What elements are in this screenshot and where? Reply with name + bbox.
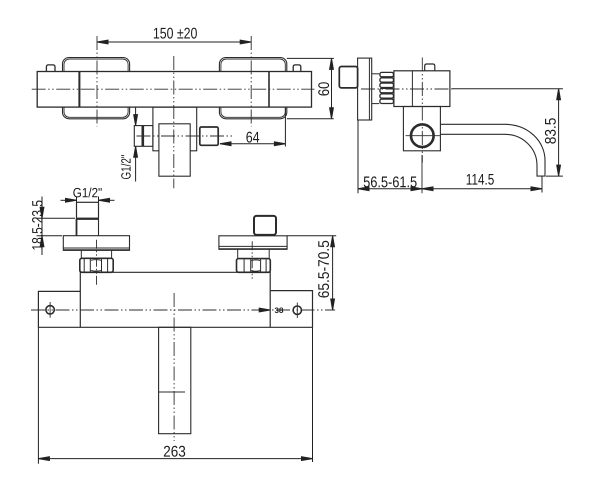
dimension G1/2 top view — [61, 197, 115, 203]
knurled adapter — [380, 72, 394, 76]
dimension 114.5 — [422, 177, 542, 193]
dimension 56.5-61.5 — [358, 120, 422, 193]
left nipple thread boundary — [77, 218, 99, 220]
left flange — [63, 236, 129, 251]
right flange — [219, 236, 287, 249]
dimension 65.5-70.5 — [287, 236, 336, 310]
spout block — [403, 107, 440, 151]
right handle vertical centerline — [250, 36, 252, 127]
centerlines side view — [361, 58, 452, 163]
label G1/2 outlet — [121, 155, 131, 179]
screw hole left — [46, 306, 54, 314]
leader 38 — [259, 308, 270, 312]
left nipple lower — [76, 219, 78, 236]
dimension 18.5-23.5 — [37, 197, 76, 256]
dimension 64 — [220, 108, 285, 147]
right outlet block — [200, 127, 218, 145]
body horizontal centerline — [361, 88, 452, 90]
label 65.5-70.5 — [318, 241, 329, 298]
G1/2 leader front view — [134, 107, 138, 181]
handle right — [219, 58, 286, 119]
body top tab — [425, 64, 435, 71]
spout outline — [440, 124, 545, 176]
right connection centerline — [251, 241, 253, 278]
wall union square — [339, 67, 357, 88]
stub pipe — [372, 73, 380, 75]
spout front block — [159, 124, 190, 176]
right nipple — [254, 216, 276, 235]
right chamfer — [237, 249, 239, 258]
label 83.5 — [545, 118, 556, 143]
label 56.5-61.5 — [364, 176, 417, 187]
dimension 83.5 — [452, 89, 563, 176]
central vertical centerline — [173, 56, 175, 188]
bar horizontal centerline — [32, 88, 315, 90]
mounting plate — [38, 291, 312, 328]
left connection centerline — [96, 240, 98, 285]
plate horizontal centerline — [31, 309, 335, 311]
centerlines top view — [31, 240, 335, 441]
centerlines front view — [32, 36, 315, 188]
label 60 — [318, 82, 329, 95]
label 150 ±20 — [154, 28, 197, 39]
left nut — [80, 258, 113, 272]
vertical centerline — [421, 58, 423, 163]
label 64 — [246, 132, 259, 143]
dimension 150 ±20 — [97, 40, 251, 44]
dimension 60 right — [287, 58, 334, 118]
circle cross tick — [406, 135, 441, 137]
tee block under bar — [153, 107, 197, 151]
check valve — [134, 126, 153, 147]
dimension 263 — [38, 328, 312, 464]
right nut — [237, 259, 271, 273]
valve body — [394, 71, 450, 107]
mixer bar body — [80, 272, 270, 327]
label 38 — [275, 307, 284, 313]
joint line left — [78, 72, 80, 108]
tab left — [46, 65, 55, 72]
slide drop rect — [159, 327, 191, 433]
label G1/2 union — [73, 188, 101, 198]
handle left — [63, 58, 130, 119]
joint line right — [268, 72, 270, 108]
label 18.5-23.5 — [32, 201, 43, 250]
left handle vertical centerline — [96, 36, 98, 127]
left chamfer — [80, 250, 82, 258]
screw hole right — [293, 306, 301, 314]
bar body — [37, 72, 311, 108]
escutcheon plate — [358, 58, 372, 120]
tab right — [293, 65, 301, 72]
label 263 — [164, 446, 185, 457]
central vertical centerline — [173, 293, 175, 441]
left nipple thread — [77, 202, 99, 218]
spout mount circle — [411, 124, 434, 147]
label 114.5 — [467, 174, 494, 185]
outlet horizontal centerline — [137, 135, 235, 137]
